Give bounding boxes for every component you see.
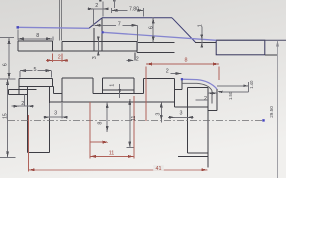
- svg-text:15: 15: [2, 113, 8, 119]
- svg-text:1.40: 1.40: [249, 80, 254, 89]
- svg-text:7: 7: [118, 22, 121, 28]
- svg-text:8: 8: [97, 122, 103, 125]
- svg-text:3: 3: [54, 111, 57, 117]
- svg-text:7.80: 7.80: [129, 7, 139, 13]
- svg-text:6: 6: [148, 26, 154, 29]
- svg-text:1.50: 1.50: [228, 91, 233, 100]
- svg-text:2: 2: [21, 101, 24, 107]
- svg-text:2: 2: [204, 96, 207, 102]
- svg-text:11: 11: [131, 115, 137, 120]
- svg-text:1: 1: [197, 24, 203, 27]
- svg-text:6: 6: [3, 63, 9, 66]
- svg-text:2: 2: [166, 69, 169, 75]
- svg-text:2: 2: [58, 54, 61, 60]
- svg-text:3: 3: [180, 111, 183, 117]
- svg-text:1: 1: [110, 84, 116, 87]
- svg-text:11: 11: [109, 150, 115, 156]
- svg-text:29.50: 29.50: [269, 106, 274, 118]
- svg-text:2: 2: [95, 3, 98, 9]
- svg-text:2: 2: [136, 56, 139, 62]
- svg-text:3: 3: [156, 113, 162, 116]
- svg-text:3: 3: [92, 56, 98, 59]
- svg-text:41: 41: [156, 166, 162, 172]
- svg-text:8: 8: [185, 58, 188, 64]
- svg-text:5: 5: [34, 67, 37, 73]
- svg-text:8: 8: [36, 33, 39, 39]
